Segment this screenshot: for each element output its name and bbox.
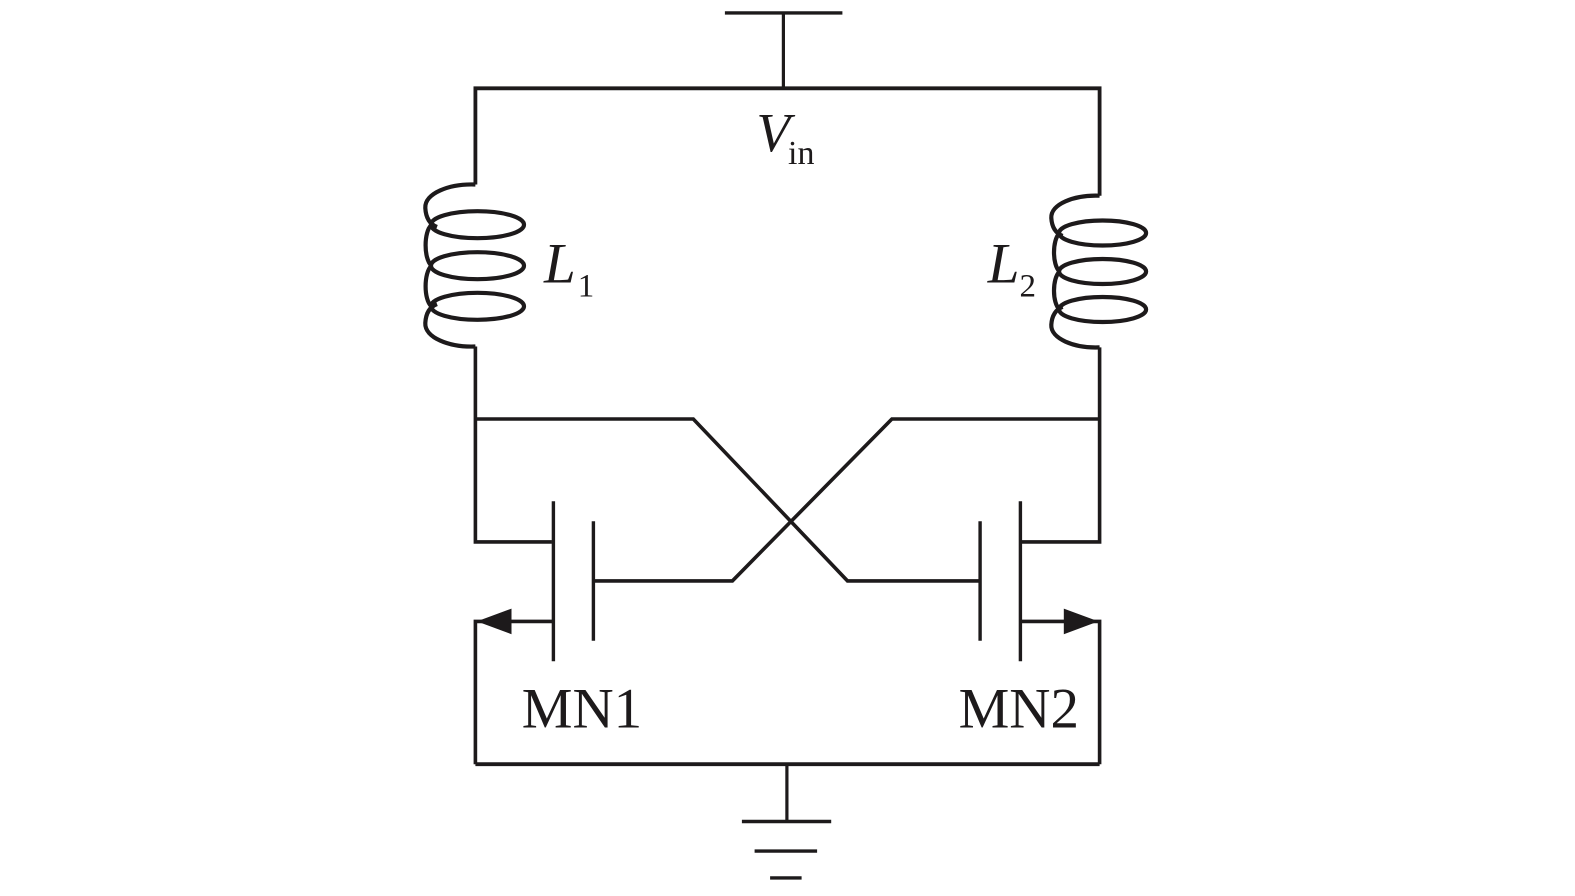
svg-text:in: in xyxy=(788,135,814,172)
svg-text:L: L xyxy=(543,233,576,296)
svg-text:1: 1 xyxy=(578,269,595,305)
svg-text:2: 2 xyxy=(1020,269,1037,305)
svg-text:MN2: MN2 xyxy=(959,677,1079,740)
svg-text:L: L xyxy=(987,232,1020,295)
svg-text:MN1: MN1 xyxy=(522,677,642,740)
